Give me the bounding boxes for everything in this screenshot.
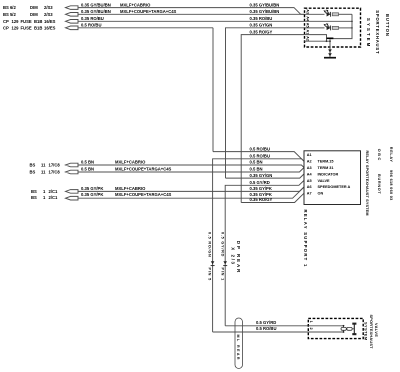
node BS 5/2 DIM 2/S3 label <box>3 12 53 17</box>
wire w2 0.5 RO/BU relay A2 to valve feed <box>213 154 304 333</box>
svg-text:2/C1: 2/C1 <box>49 195 59 200</box>
svg-text:SPORTEXHAUST: SPORTEXHAUST <box>375 10 380 54</box>
svg-text:0.35 GY/PK: 0.35 GY/PK <box>250 186 272 191</box>
svg-text:MXLF+COUPE+TARGA+C4S: MXLF+COUPE+TARGA+C4S <box>115 192 172 197</box>
wire w6 0.5 GY/RD relay A5 to valve <box>225 180 304 326</box>
node CP 129 FUSE B1B 16/ES label (2) <box>3 25 56 30</box>
svg-text:DIM: DIM <box>30 12 38 17</box>
resistor R1 <box>332 13 352 16</box>
wire w9 0.35 RO/GY to relay A7 <box>241 193 304 202</box>
svg-text:0.35 GY/BU/BN: 0.35 GY/BU/BN <box>81 9 111 14</box>
svg-text:B1B: B1B <box>34 19 42 24</box>
wire 0.35 RO/GY top run <box>241 29 304 202</box>
wire button A2 internal <box>304 40 330 42</box>
node CP 129 FUSE B1B 16/ES label (1) <box>3 19 56 24</box>
connector arrow BS 1 (2) <box>66 196 79 200</box>
svg-text:0.5 GY/RD: 0.5 GY/RD <box>220 232 224 257</box>
wire button A3 internal <box>304 13 324 15</box>
connector arrow CP 129 (1) <box>66 20 79 24</box>
svg-text:A5: A5 <box>307 179 312 183</box>
relay box sport exhaust <box>304 151 361 205</box>
svg-text:0.5 RO/BU: 0.5 RO/BU <box>81 23 101 28</box>
svg-text:16/ES: 16/ES <box>44 19 56 24</box>
svg-text:BS: BS <box>31 189 37 194</box>
connector arrow CP 129 (2) <box>66 26 79 30</box>
wire internal bus <box>330 14 352 38</box>
svg-text:0.35 RO/GY: 0.35 RO/GY <box>250 197 273 202</box>
wire 0.35 GY/BU/BN row1 <box>78 2 304 14</box>
wire valve pin1 internal <box>308 325 344 328</box>
svg-text:DP REAR: DP REAR <box>236 241 241 274</box>
svg-text:ON: ON <box>318 192 324 196</box>
svg-text:0.5 RO/GN: 0.5 RO/GN <box>207 232 211 258</box>
svg-text:0.5 RO/BU: 0.5 RO/BU <box>250 146 270 151</box>
svg-text:2/S3: 2/S3 <box>44 12 53 17</box>
case bar in valve <box>352 323 356 336</box>
svg-text:0.35 RO/BU: 0.35 RO/BU <box>250 16 273 21</box>
svg-text:BS 5/2: BS 5/2 <box>3 12 16 17</box>
wire w7 0.35 GY/PK (cabrio) <box>78 186 304 191</box>
svg-text:0.5 RO/BU: 0.5 RO/BU <box>250 154 270 159</box>
wire valve pin2 internal <box>308 330 344 333</box>
svg-text:0.35 GY/GN: 0.35 GY/GN <box>250 23 273 28</box>
connector arrow BS 11 (2) <box>66 170 79 174</box>
svg-text:0.5 GY/RD: 0.5 GY/RD <box>256 320 276 325</box>
svg-text:B1B: B1B <box>34 25 42 30</box>
svg-text:2/S3: 2/S3 <box>44 5 53 10</box>
svg-text:SPORTEXHAUST: SPORTEXHAUST <box>369 315 373 350</box>
node junction A1/A2 <box>326 40 328 42</box>
svg-text:VALVE: VALVE <box>318 179 331 183</box>
svg-text:1: 1 <box>309 321 313 323</box>
svg-text:A2: A2 <box>306 36 310 41</box>
svg-text:0.35 RO/BU: 0.35 RO/BU <box>81 16 104 21</box>
svg-text:BS: BS <box>30 170 36 175</box>
wire 0.5 GY/RD to valve pin 1 <box>225 320 308 326</box>
svg-text:MXLF+CABRIO: MXLF+CABRIO <box>115 160 146 165</box>
svg-text:0.35 GY/BU/BN: 0.35 GY/BU/BN <box>81 2 111 7</box>
svg-text:17/C8: 17/C8 <box>49 170 61 175</box>
node bus junction A4 <box>351 21 353 23</box>
svg-text:SYSTEM: SYSTEM <box>364 322 368 341</box>
svg-text:0.5 BN: 0.5 BN <box>81 160 94 165</box>
wire w3 0.5 BN (cabrio) <box>78 160 304 168</box>
svg-text:A5: A5 <box>306 23 310 28</box>
connector PIN 1 inline plug <box>223 261 227 265</box>
svg-text:MXLF+COUPE+TARGA+C4S: MXLF+COUPE+TARGA+C4S <box>120 9 177 14</box>
LED V1 <box>323 10 330 17</box>
svg-text:CP: CP <box>3 25 9 30</box>
wire w8 0.35 GY/PK (coupe) <box>78 187 304 198</box>
svg-text:MXLF+CABRIO: MXLF+CABRIO <box>115 186 146 191</box>
wire button A5 internal <box>304 27 324 29</box>
svg-text:BS: BS <box>31 195 37 200</box>
svg-text:INDICATOR: INDICATOR <box>318 172 339 176</box>
connector mark on ground stem (upper) <box>328 49 332 52</box>
svg-text:A2: A2 <box>307 160 312 164</box>
button box S21 sport exhaust (dashed) <box>305 8 361 47</box>
svg-text:129: 129 <box>12 19 20 24</box>
resistor R2 <box>332 26 352 29</box>
svg-text:PIN 5: PIN 5 <box>207 268 211 282</box>
wire 0.35 RO/BU row3 <box>78 16 304 21</box>
svg-text:2: 2 <box>309 328 313 330</box>
wire 0.35 GY/GN top run <box>226 23 305 179</box>
connector arrow BS 1 (1) <box>66 190 79 194</box>
svg-text:0.5 BN: 0.5 BN <box>81 167 94 172</box>
svg-text:11: 11 <box>41 163 46 168</box>
svg-text:BUTTON: BUTTON <box>385 14 390 37</box>
svg-text:OBC: OBC <box>377 149 381 162</box>
svg-text:129: 129 <box>12 25 20 30</box>
connector arrow BS 5/2 <box>66 13 79 17</box>
svg-text:A3: A3 <box>306 9 310 14</box>
node BS 1 2/C1 label (1) <box>31 189 58 194</box>
node BS 11 17/C8 label (1) <box>30 163 61 168</box>
svg-text:0.5 BN: 0.5 BN <box>250 167 263 172</box>
svg-text:0.5 BN: 0.5 BN <box>250 160 263 165</box>
node bus junction A5 <box>351 27 353 29</box>
svg-text:TERM 31: TERM 31 <box>318 166 334 170</box>
svg-text:A6: A6 <box>307 185 312 189</box>
connector mark on ground stem (lower) <box>328 53 332 56</box>
valve box sport exhaust (dashed) <box>308 318 363 338</box>
svg-text:RELAY: RELAY <box>389 147 393 163</box>
svg-text:VALVE: VALVE <box>374 323 378 337</box>
svg-text:11: 11 <box>41 170 46 175</box>
svg-text:MXLF+COUPE+TARGA+C4S: MXLF+COUPE+TARGA+C4S <box>115 167 172 172</box>
wire w1 0.5 RO/BU to relay A2 <box>213 146 304 161</box>
svg-text:0.5 RO/BU: 0.5 RO/BU <box>256 326 276 331</box>
node BS 1 2/C1 label (2) <box>31 195 58 200</box>
solenoid coil Y1 <box>341 327 352 330</box>
svg-text:2/C1: 2/C1 <box>49 189 59 194</box>
wire button A1 internal <box>304 35 326 42</box>
loom ML REAR capsule <box>235 318 243 369</box>
wire w5 0.35 GY/GN to relay A4 <box>226 173 304 178</box>
node junction stem/A2 <box>329 40 331 42</box>
svg-text:0.35 GY/BU/BN: 0.35 GY/BU/BN <box>250 2 280 7</box>
wire vertical RO/BU feed to relay <box>212 28 214 152</box>
svg-text:X 2/3: X 2/3 <box>231 247 236 265</box>
svg-text:0.35 GY/GN: 0.35 GY/GN <box>250 173 273 178</box>
svg-text:FUSE: FUSE <box>21 25 32 30</box>
svg-text:RELAY SPORTEXHAUST SYSTEM: RELAY SPORTEXHAUST SYSTEM <box>365 151 369 216</box>
wire coil to case <box>352 328 354 330</box>
svg-text:TERM.15: TERM.15 <box>318 160 334 164</box>
svg-text:RELAY SUPPORT 1: RELAY SUPPORT 1 <box>303 210 308 268</box>
switch S contact bar <box>327 38 334 40</box>
svg-text:SYSTEM: SYSTEM <box>366 18 371 48</box>
svg-text:0.5 GY/RD: 0.5 GY/RD <box>250 180 270 185</box>
node BS 6/2 DIM 2/S3 label <box>3 5 53 10</box>
svg-text:BS: BS <box>30 163 36 168</box>
wire 0.35 GY/BU/BN row2 <box>78 9 304 14</box>
svg-text:A1: A1 <box>306 30 310 35</box>
svg-text:17/C8: 17/C8 <box>49 163 61 168</box>
svg-text:996 618 060 03: 996 618 060 03 <box>389 170 393 201</box>
connector arrow BS 11 (1) <box>66 163 79 167</box>
wire 0.5 RO/BU to valve pin 2 <box>213 326 309 332</box>
svg-text:0.35 RO/GY: 0.35 RO/GY <box>250 29 273 34</box>
svg-text:SPEEDOMETER A: SPEEDOMETER A <box>318 185 351 189</box>
svg-text:ML REAR: ML REAR <box>236 335 240 361</box>
connector arrow BS 6/2 <box>66 6 79 10</box>
wire w4 0.5 BN (coupe) <box>78 167 304 172</box>
LED V2 <box>323 23 330 30</box>
svg-text:FUSE: FUSE <box>21 19 32 24</box>
wire 0.5 RO/BU row4 <box>78 23 213 28</box>
svg-text:0.35 GY/PK: 0.35 GY/PK <box>81 186 103 191</box>
svg-text:BS 6/2: BS 6/2 <box>3 5 16 10</box>
svg-text:16/ES: 16/ES <box>44 25 56 30</box>
svg-text:MXLF+CABRIO: MXLF+CABRIO <box>120 2 151 7</box>
node BS 11 17/C8 label (2) <box>30 170 61 175</box>
svg-text:0.35 GY/BU/BN: 0.35 GY/BU/BN <box>250 9 280 14</box>
svg-text:0.35 GY/PK: 0.35 GY/PK <box>81 192 103 197</box>
svg-text:PIN 1: PIN 1 <box>220 268 224 282</box>
svg-text:DIM: DIM <box>30 5 38 10</box>
svg-text:BURNOT: BURNOT <box>377 174 381 194</box>
connector PIN 5 inline plug <box>211 261 215 265</box>
wire button A4 internal <box>304 20 352 22</box>
svg-text:A7: A7 <box>307 192 312 196</box>
wire ground stem <box>329 39 331 57</box>
svg-text:A3: A3 <box>307 166 312 170</box>
svg-text:CP: CP <box>3 19 9 24</box>
ground MP <box>324 57 336 59</box>
svg-text:A1: A1 <box>307 153 312 157</box>
